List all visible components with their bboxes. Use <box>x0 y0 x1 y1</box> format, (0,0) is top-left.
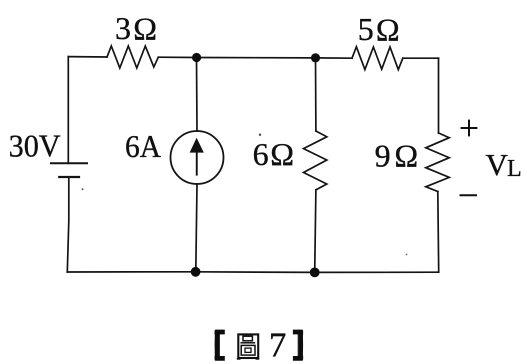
battery V1 bottom plate <box>59 176 79 178</box>
node C bottom-left junction dot <box>191 267 201 277</box>
node D bottom-right junction dot <box>310 268 320 278</box>
wire current source upper <box>196 58 199 132</box>
node A top-left junction dot <box>192 53 201 62</box>
caption right bracket <box>293 330 303 361</box>
wire left rail upper <box>67 57 69 164</box>
svg-text:5: 5 <box>358 11 374 47</box>
resistor R3 6ohm <box>304 131 327 190</box>
svg-text:L: L <box>507 156 522 182</box>
svg-text:7: 7 <box>269 326 287 364</box>
label polarity plus <box>461 120 478 137</box>
wire bottom <box>67 271 438 274</box>
svg-text:Ω: Ω <box>270 136 294 172</box>
svg-text:6: 6 <box>253 136 269 172</box>
wire current source lower <box>196 184 197 272</box>
caption character tu (figure) <box>237 334 259 359</box>
wire 6ohm lower <box>315 190 316 273</box>
resistor R4 9ohm <box>426 133 449 192</box>
battery V1 top plate <box>51 162 87 164</box>
current source I1 arrow <box>190 138 204 176</box>
svg-text:9: 9 <box>375 138 391 174</box>
svg-text:6A: 6A <box>125 128 161 164</box>
wire left rail lower <box>67 177 69 272</box>
wire top-right horizontal <box>403 57 439 59</box>
label polarity minus <box>460 194 478 196</box>
caption left bracket <box>215 330 225 361</box>
svg-text:3: 3 <box>115 10 131 46</box>
wire top-left horizontal <box>68 56 107 58</box>
wire top middle-left <box>158 56 196 58</box>
wire right rail upper <box>438 58 440 133</box>
speck dust 1 <box>82 188 84 190</box>
resistor R2 5ohm <box>352 47 403 70</box>
svg-text:Ω: Ω <box>394 138 418 174</box>
wire right rail lower <box>437 192 440 273</box>
wire top middle-right <box>316 57 353 59</box>
speck dust 2 <box>259 134 261 136</box>
svg-text:Ω: Ω <box>376 11 400 47</box>
svg-text:Ω: Ω <box>133 11 157 47</box>
resistor R1 3ohm <box>107 46 158 68</box>
svg-text:30V: 30V <box>9 128 61 164</box>
svg-text:V: V <box>486 147 509 182</box>
speck dust 3 <box>406 254 408 256</box>
wire top middle <box>197 57 316 59</box>
wire 6ohm upper <box>315 58 317 131</box>
current source I1 circle <box>171 131 224 184</box>
node B top-right junction dot <box>311 53 320 62</box>
